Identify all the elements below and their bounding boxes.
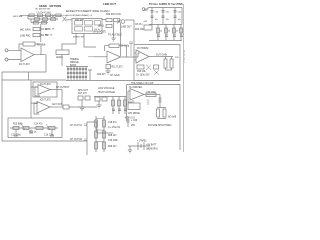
svg-text:INSERT SW: INSERT SW bbox=[73, 37, 84, 39]
svg-text:TO ALL AUDIO IC Vcc PINS: TO ALL AUDIO IC Vcc PINS bbox=[149, 2, 183, 6]
svg-text:TO AUX BUS: TO AUX BUS bbox=[108, 34, 122, 37]
svg-text:+16V: +16V bbox=[143, 10, 148, 12]
svg-text:FUTURE SHUNT REG: FUTURE SHUNT REG bbox=[148, 125, 172, 127]
svg-text:R10 4k7: R10 4k7 bbox=[97, 74, 106, 76]
svg-text:C19 100n: C19 100n bbox=[108, 140, 119, 142]
svg-text:IC5 TL072: IC5 TL072 bbox=[40, 100, 51, 102]
svg-text:R28 4k7: R28 4k7 bbox=[108, 135, 117, 137]
svg-text:LEVEL: LEVEL bbox=[56, 57, 64, 59]
svg-text:+9V BATT: +9V BATT bbox=[146, 144, 157, 147]
svg-text:+0 dBu NOM (BAL/UNBAL) +4: +0 dBu NOM (BAL/UNBAL) +4 bbox=[62, 14, 93, 17]
svg-text:HIGH VOLTAGE: HIGH VOLTAGE bbox=[98, 91, 115, 94]
svg-text:IC1 TL072: IC1 TL072 bbox=[19, 64, 30, 66]
svg-text:CH GAIN: CH GAIN bbox=[110, 74, 120, 77]
svg-text:(PRE/POST): (PRE/POST) bbox=[93, 32, 106, 34]
svg-text:R17 470: R17 470 bbox=[78, 93, 87, 95]
svg-text:LOW VOLTAGE: LOW VOLTAGE bbox=[98, 87, 115, 90]
svg-text:R20 600 CCW: R20 600 CCW bbox=[106, 14, 122, 16]
svg-text:10u: 10u bbox=[155, 19, 158, 21]
svg-text:MIC GAIN: MIC GAIN bbox=[20, 29, 31, 32]
svg-text:R1 680 R2 680: R1 680 R2 680 bbox=[36, 9, 51, 11]
svg-text:C3 10u: C3 10u bbox=[41, 29, 49, 31]
svg-text:C14 47u: C14 47u bbox=[34, 124, 43, 126]
svg-text:25V: 25V bbox=[131, 125, 136, 127]
svg-text:(BAL): (BAL) bbox=[98, 25, 104, 28]
svg-text:CH OUTPUT: CH OUTPUT bbox=[56, 87, 70, 89]
svg-text:C+ 100u 25V: C+ 100u 25V bbox=[136, 75, 150, 77]
svg-text:EFFECTS INSERT SIDE CHAIN: EFFECTS INSERT SIDE CHAIN bbox=[66, 9, 109, 13]
svg-text:R15 10k: R15 10k bbox=[137, 71, 146, 73]
svg-text:10u: 10u bbox=[178, 19, 181, 21]
svg-text:1k: 1k bbox=[160, 31, 162, 33]
svg-text:LINE PAD: LINE PAD bbox=[20, 35, 31, 38]
svg-text:SEND: SEND bbox=[39, 4, 47, 8]
svg-text:1k: 1k bbox=[176, 31, 178, 33]
svg-text:LINE OUT: LINE OUT bbox=[103, 2, 116, 6]
svg-text:C8 47u: C8 47u bbox=[135, 24, 143, 26]
svg-text:RETURN: RETURN bbox=[50, 4, 62, 8]
svg-text:+ (TAPE): + (TAPE) bbox=[137, 140, 147, 143]
svg-text:R6 100k: R6 100k bbox=[37, 45, 46, 47]
svg-text:C+ 470u 6V: C+ 470u 6V bbox=[108, 127, 121, 129]
svg-text:NO 6A8: NO 6A8 bbox=[168, 116, 177, 119]
svg-text:R29 4k7: R29 4k7 bbox=[108, 146, 117, 148]
svg-text:CH OUT #1: CH OUT #1 bbox=[70, 125, 83, 127]
svg-text:MIDDLE: MIDDLE bbox=[70, 62, 79, 64]
svg-text:-16V: -16V bbox=[143, 21, 148, 23]
svg-text:(MEMORY): (MEMORY) bbox=[146, 149, 158, 151]
svg-text:10u: 10u bbox=[166, 19, 169, 21]
svg-text:R14 10k: R14 10k bbox=[135, 29, 144, 31]
svg-text:MIC/LINE: MIC/LINE bbox=[13, 16, 23, 18]
svg-text:OUT GAIN: OUT GAIN bbox=[156, 54, 167, 57]
svg-text:SPK OUT: SPK OUT bbox=[78, 90, 89, 92]
svg-text:C18 47u: C18 47u bbox=[108, 122, 117, 124]
svg-text:TREBLE: TREBLE bbox=[70, 59, 79, 61]
svg-text:SW1 SW2: SW1 SW2 bbox=[75, 19, 85, 21]
svg-text:AUX OUT: AUX OUT bbox=[52, 103, 63, 106]
svg-text:1k: 1k bbox=[168, 31, 170, 33]
svg-text:IC3 5532M: IC3 5532M bbox=[137, 48, 148, 50]
svg-text:CH OUT #2: CH OUT #2 bbox=[70, 139, 83, 141]
svg-text:LTD DRIVE: LTD DRIVE bbox=[128, 113, 140, 115]
svg-text:LINE OUT: LINE OUT bbox=[121, 27, 132, 29]
svg-text:R11 TL072: R11 TL072 bbox=[112, 67, 124, 69]
svg-text:R4 47k: R4 47k bbox=[41, 35, 49, 37]
svg-text:+ C20: + C20 bbox=[131, 120, 138, 122]
